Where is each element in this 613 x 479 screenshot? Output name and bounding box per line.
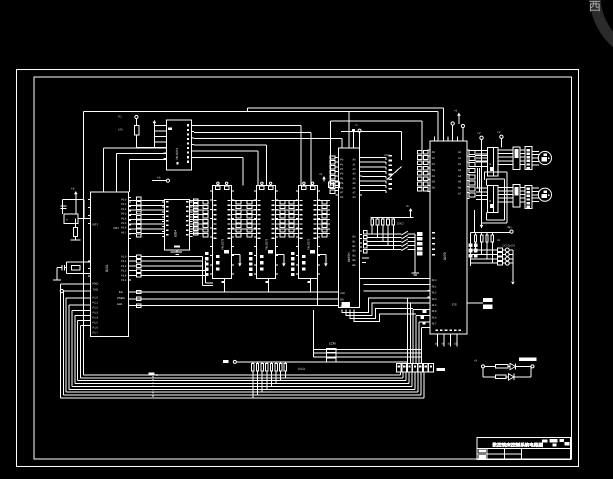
- U9 ground stub: [176, 250, 178, 252]
- opto left rail: [469, 233, 471, 267]
- inner border frame: [34, 77, 572, 459]
- LCM contrast stack: [327, 348, 336, 352]
- U1 P2 label boxes: [137, 255, 142, 258]
- svg-text:+5: +5: [319, 172, 323, 176]
- U1 AD bus label boxes: [137, 197, 142, 200]
- svg-text:+V: +V: [477, 131, 481, 135]
- U5 inner pin label marks: [300, 200, 303, 201]
- svg-text:74LS273: 74LS273: [307, 238, 311, 250]
- svg-text:P1.1: P1.1: [93, 302, 99, 305]
- svg-text:RL3: RL3: [432, 298, 437, 301]
- svg-text:R1: R1: [118, 115, 122, 119]
- U3 left label ladder: [203, 201, 208, 204]
- svg-text:LCM: LCM: [329, 341, 336, 345]
- wire U6 to U7 data c: [363, 290, 430, 292]
- svg-text:RL4: RL4: [432, 304, 437, 307]
- U4 bottom stub to bus: [267, 279, 269, 292]
- AD bus segments between latches: [232, 200, 257, 202]
- ground arrow opto: [511, 282, 515, 285]
- wire diode join: [530, 366, 532, 377]
- terminal node diode circuit: [482, 365, 485, 368]
- driver D2 body: [488, 185, 499, 212]
- U3 right pin ticks: [232, 190, 235, 192]
- capacitor C1: [62, 198, 84, 200]
- RN1 bottom stubs: [252, 371, 254, 398]
- latch select risers: [202, 257, 204, 286]
- U2 left pin ticks: [164, 124, 167, 126]
- svg-text:P0.4: P0.4: [121, 217, 127, 220]
- U4 right pin ticks: [276, 190, 279, 192]
- keypad column risers to U7: [407, 298, 409, 364]
- svg-text:P1.7: P1.7: [93, 332, 99, 335]
- keypad white label: [437, 368, 446, 371]
- wire R2 to ground: [75, 237, 77, 241]
- latch U5 74LS273 body: [299, 186, 318, 279]
- terminal at U1 serial pin: [60, 289, 63, 292]
- U2 right pin squares: [187, 124, 189, 126]
- electrolytic cap C2 box: [64, 214, 78, 223]
- svg-text:10kΩ: 10kΩ: [298, 367, 306, 371]
- wire node to R5: [485, 365, 496, 367]
- U9 left pin ticks: [162, 201, 165, 203]
- driver D1 body: [488, 148, 499, 176]
- svg-text:DO-3μΩ4: DO-3μΩ4: [502, 244, 515, 248]
- svg-text:74LS273: 74LS273: [221, 238, 225, 250]
- svg-text:P0.5: P0.5: [121, 222, 127, 225]
- resistor R6: [496, 375, 506, 379]
- svg-text:P2.3: P2.3: [121, 270, 127, 273]
- resistor R5: [496, 365, 508, 369]
- latch U3 74LS273 body: [213, 186, 232, 279]
- wires XS2 to XP2: [520, 186, 525, 188]
- U7 top pin stubs: [434, 137, 436, 142]
- svg-text:RXD: RXD: [93, 282, 99, 286]
- driver routing box: [485, 171, 508, 173]
- U4 inner pin label marks: [258, 200, 261, 201]
- driver D1 input wires: [476, 149, 488, 151]
- U7 left pin ticks upper: [427, 149, 430, 151]
- AD bus wires: [129, 200, 137, 202]
- RN1 top stubs: [252, 362, 254, 364]
- U4 left label ladder: [247, 201, 252, 204]
- long wire y361.9: [236, 361, 407, 363]
- annotation arrow on U6 pins: [387, 167, 402, 181]
- connector XS2: [513, 185, 520, 208]
- RN2 bottom stubs: [475, 242, 477, 250]
- U7 right square grid: [469, 244, 473, 248]
- RN2 top wire: [470, 232, 510, 234]
- power flag terminal: [233, 360, 236, 363]
- ground arrow driver: [480, 225, 484, 228]
- U3 left pin ticks: [210, 190, 213, 192]
- svg-text:P0.2: P0.2: [121, 208, 127, 211]
- U9 right pin ticks: [190, 201, 193, 203]
- wire cap to RST: [75, 197, 77, 200]
- driver D2 input wires: [476, 187, 488, 189]
- RAM U9 6264 body: [165, 200, 190, 250]
- svg-text:P2.5: P2.5: [121, 279, 127, 282]
- wire R1 down: [135, 135, 137, 148]
- wires XP2 to motor M2: [532, 187, 539, 189]
- U1 top pin ticks: [103, 189, 105, 192]
- U2 output wires: [194, 124, 301, 126]
- U1 right pin ticks: [129, 197, 132, 199]
- svg-text:RD: RD: [340, 299, 344, 302]
- svg-text:+5: +5: [474, 359, 478, 363]
- bus U7 to driver2 vertical: [477, 168, 479, 188]
- U1 left pin ticks upper: [88, 198, 91, 200]
- latch U2 74LS373 body: [166, 120, 191, 170]
- svg-text:P1.2: P1.2: [93, 307, 99, 310]
- svg-text:P0.0: P0.0: [121, 199, 127, 202]
- wire crystal ground: [56, 268, 58, 280]
- svg-text:口: 口: [156, 373, 159, 377]
- svg-text:C/S: C/S: [452, 303, 457, 307]
- svg-text:8279: 8279: [443, 252, 447, 260]
- U6 left label ladder: [330, 156, 335, 159]
- LCM left riser: [312, 310, 314, 357]
- svg-text:RL2: RL2: [432, 292, 437, 295]
- wire y131.5: [341, 131, 402, 133]
- wire x83.6 to bus: [83, 111, 85, 375]
- wire top bus upper drop: [443, 108, 445, 141]
- U5 lower small boxes: [291, 252, 295, 255]
- D1 inside marks: [493, 148, 495, 176]
- U5 bottom label: [308, 281, 311, 283]
- diode V2: [509, 374, 514, 380]
- svg-text:P1.5: P1.5: [93, 322, 99, 325]
- svg-text:P1.0: P1.0: [93, 297, 99, 300]
- svg-text:+5: +5: [157, 176, 161, 180]
- svg-text:数控铣床控制系统电路图: 数控铣床控制系统电路图: [492, 442, 544, 448]
- svg-text:R4: R4: [497, 238, 501, 242]
- wire mid bus y120.8: [331, 120, 422, 122]
- terminal J1: [135, 115, 138, 118]
- U7 bottom pin stubs: [437, 334, 439, 347]
- switch common rail: [414, 234, 416, 273]
- RP2 top wire: [371, 217, 414, 219]
- key switch lines: [367, 233, 402, 235]
- svg-text:P2.4: P2.4: [121, 274, 127, 277]
- U7 right pin ticks: [467, 149, 470, 151]
- RP2 bottom stubs: [371, 225, 373, 234]
- U7 left label boxes double column: [417, 150, 422, 154]
- keypad connector row: [397, 363, 402, 371]
- IC U7 8279 body: [430, 141, 467, 334]
- P1 bus leader line: [152, 376, 154, 399]
- U3 inner big mark: [224, 250, 229, 254]
- svg-text:RL7: RL7: [432, 323, 437, 326]
- U1 left pin ticks lower: [88, 260, 91, 262]
- wire J1 to R1: [135, 119, 137, 126]
- U4 left pin ticks: [254, 190, 257, 192]
- svg-text:P0.6: P0.6: [121, 227, 127, 230]
- D2 output wires to connector: [498, 186, 513, 188]
- svg-text:+5: +5: [454, 109, 458, 113]
- U9 inner bottom label: [174, 245, 180, 247]
- U5 left label ladder: [289, 201, 294, 204]
- svg-text:ALE: ALE: [117, 302, 122, 306]
- U3 top terminal boxes: [216, 186, 220, 190]
- net label boxes right of switches: [417, 232, 423, 236]
- wires XS1 to XP1: [520, 149, 525, 151]
- svg-text:P0.1: P0.1: [121, 203, 127, 206]
- U2 right pin ticks: [192, 124, 195, 126]
- svg-text:P2.1: P2.1: [121, 260, 127, 263]
- svg-text:P1.3: P1.3: [93, 312, 99, 315]
- svg-text:10k: 10k: [118, 128, 123, 132]
- driver routing inner: [487, 178, 505, 180]
- svg-text:PSEN: PSEN: [117, 296, 125, 300]
- resistor R1: [134, 125, 138, 135]
- svg-text:10kΩ: 10kΩ: [397, 221, 405, 225]
- svg-text:ALE: ALE: [340, 292, 345, 295]
- net label boxes near U6: [329, 182, 334, 188]
- wire drop at x438: [437, 111, 439, 141]
- U1 control line label boxes: [137, 290, 142, 293]
- title block left cells: [478, 449, 485, 452]
- svg-text:P0.3: P0.3: [121, 213, 127, 216]
- title block row divider: [477, 447, 571, 449]
- terminal +V driver 1: [480, 136, 483, 139]
- svg-text:RL6: RL6: [432, 316, 437, 319]
- U3 inner pin label marks: [214, 200, 217, 201]
- resistor R2: [73, 228, 77, 237]
- U1 P1 port wires nested: [60, 283, 90, 285]
- wire MCU to U2 b: [115, 154, 117, 192]
- P1 bus horizontal lines: [80, 377, 403, 379]
- U9 inner pin marks: [166, 201, 169, 203]
- U3 ground hook: [232, 254, 240, 256]
- bus U7 to drivers: [475, 149, 488, 151]
- key switch levers: [402, 231, 408, 235]
- PSEN ALE wires to U6: [129, 291, 339, 293]
- label bar diode circuit: [519, 358, 537, 362]
- U6 lower pin stubs: [362, 257, 369, 259]
- U3 right label ladder: [236, 201, 241, 204]
- connector XP2: [525, 185, 532, 208]
- crystal cap C3: [61, 265, 63, 271]
- U5 right label ladder: [322, 201, 327, 204]
- VCC rail line: [153, 125, 155, 148]
- title block right cells: [550, 439, 558, 442]
- terminal J2 +5: [166, 179, 169, 182]
- D1 output wires to connector: [498, 149, 513, 151]
- wire MCU to U2 c: [128, 159, 130, 192]
- terminal +5 opto: [510, 230, 513, 233]
- U3 bottom stub to bus: [223, 279, 225, 292]
- U6 right pin label boxes: [364, 231, 367, 234]
- latch U5 extra drop: [317, 279, 319, 306]
- LCM wires: [313, 349, 421, 351]
- U4 right label ladder: [280, 201, 285, 204]
- svg-text:74LS373: 74LS373: [175, 148, 179, 160]
- resistor network RN1: [252, 364, 254, 372]
- svg-text:RL5: RL5: [432, 310, 437, 313]
- svg-text:WR1: WR1: [384, 153, 391, 157]
- U4 bottom label: [266, 281, 269, 283]
- VCC rail arrow at U2: [153, 120, 157, 123]
- svg-text:8155H: 8155H: [347, 252, 351, 262]
- svg-text:+5: +5: [71, 187, 75, 191]
- wires XP1 to motor M1: [532, 150, 539, 152]
- watermark arc: [595, 0, 613, 58]
- ground bar switches: [412, 272, 419, 274]
- U6 right hook wires: [362, 157, 386, 159]
- P2 bus wires: [129, 256, 137, 258]
- svg-text:+5: +5: [406, 204, 410, 208]
- svg-text:RL1: RL1: [432, 285, 437, 288]
- latch U4 74LS273 body: [257, 186, 276, 279]
- svg-text:+5: +5: [507, 225, 511, 229]
- svg-text:RL0: RL0: [432, 279, 437, 282]
- U5 ground hook: [318, 254, 326, 256]
- IC U6 8155 body: [338, 148, 359, 307]
- terminal +V driver 2: [500, 135, 503, 138]
- U6 bottom port label: [342, 302, 351, 307]
- connector XS1: [513, 147, 520, 170]
- svg-text:6264: 6264: [174, 230, 178, 237]
- MCU U1 8031 body: [91, 192, 129, 337]
- U4 ground hook: [276, 254, 284, 256]
- U2 left pin stub wires: [154, 124, 166, 126]
- svg-text:P2.0: P2.0: [121, 256, 127, 259]
- U5 right pin ticks: [318, 190, 321, 192]
- svg-text:+V: +V: [497, 130, 501, 134]
- svg-text:74LS273: 74LS273: [265, 238, 269, 250]
- U4 inner big mark: [268, 250, 273, 254]
- svg-text:+: +: [66, 218, 68, 222]
- svg-text:EA: EA: [119, 290, 123, 294]
- wire stub at U7 right: [473, 210, 475, 233]
- RP2 +5 arrow: [409, 208, 413, 211]
- svg-text:RST: RST: [114, 226, 120, 230]
- wire top bus upper: [248, 107, 444, 109]
- svg-text:P0.7: P0.7: [121, 231, 127, 234]
- outer border frame: [17, 70, 579, 467]
- title block outline: [477, 438, 571, 460]
- C/S wire and jumper: [467, 302, 483, 304]
- P1 bus right risers: [402, 372, 404, 378]
- opto isolator rows: [497, 248, 502, 252]
- stepper motor M2: [538, 188, 551, 201]
- wire U6 to U7 data b: [363, 284, 430, 286]
- U5 bottom stub to bus: [309, 279, 311, 292]
- U6 right edge lower stubs: [359, 277, 363, 279]
- U3 bottom label: [222, 281, 225, 283]
- title block column dividers: [486, 448, 488, 459]
- wire MCU to U2 a: [103, 148, 105, 192]
- svg-text:P1.4: P1.4: [93, 317, 99, 320]
- svg-text:RST: RST: [93, 223, 99, 227]
- U7 right label ladder: [469, 150, 475, 154]
- U2 inside mark: [168, 128, 172, 131]
- label P1 bus: [148, 373, 154, 376]
- resistor row RN2: [474, 235, 476, 242]
- U9 right label ladder: [193, 199, 198, 202]
- stepper motor M1: [538, 151, 551, 164]
- connector XP1: [525, 147, 532, 170]
- U7 top terminals: [451, 122, 454, 125]
- svg-text:P2.2: P2.2: [121, 265, 127, 268]
- wire drop to U6 top: [348, 111, 350, 148]
- svg-text:P1.6: P1.6: [93, 327, 99, 330]
- U6 bottom nested wires: [342, 298, 408, 313]
- junction marks on risers: [422, 310, 426, 313]
- U7 inside bottom labels: [436, 330, 439, 332]
- wire U6 to U7 data a: [363, 277, 430, 279]
- U6 right pin ticks upper: [359, 157, 362, 159]
- diode V1: [510, 363, 515, 369]
- power arrow +5 at U1 top-left: [74, 191, 78, 194]
- D2 inside marks: [493, 185, 495, 212]
- wire top bus lower: [84, 110, 438, 112]
- crystal Y1 circuit: [67, 261, 91, 263]
- U7 left pin ticks lower: [427, 277, 430, 279]
- svg-text:8031: 8031: [105, 264, 109, 272]
- resistor pack RP2: [371, 219, 374, 225]
- svg-text:+5: +5: [355, 123, 359, 127]
- U3 lower small boxes: [205, 252, 209, 255]
- U4 lower small boxes: [249, 252, 253, 255]
- U4 top terminal boxes: [260, 186, 264, 190]
- U5 left pin ticks: [296, 190, 299, 192]
- U7 inside left mid labels: [432, 232, 435, 234]
- U5 inner big mark: [310, 250, 315, 254]
- wire branch down: [482, 368, 484, 377]
- U6 right pin ticks lower: [359, 233, 362, 235]
- U5 top terminal boxes: [302, 186, 306, 190]
- U6 left pin ticks: [336, 157, 339, 159]
- svg-text:TXD: TXD: [93, 288, 99, 292]
- +5 arrow above U7: [457, 113, 461, 116]
- svg-text:西: 西: [589, 0, 602, 14]
- opto right rail down: [512, 250, 514, 281]
